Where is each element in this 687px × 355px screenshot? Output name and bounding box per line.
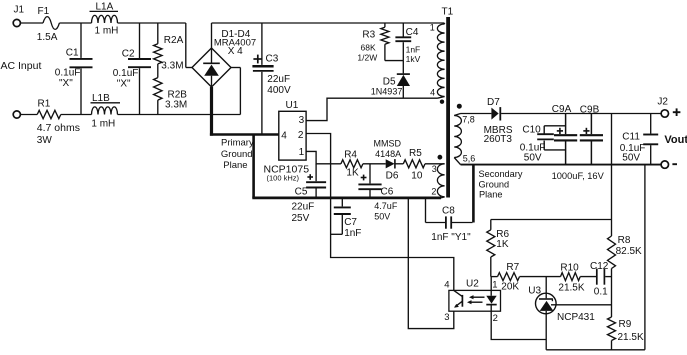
wire R6 to R7 node	[491, 276, 498, 278]
svg-text:D7: D7	[487, 97, 500, 108]
svg-text:21.5K: 21.5K	[558, 282, 584, 293]
svg-text:X 4: X 4	[228, 46, 243, 57]
svg-text:0.1uF: 0.1uF	[113, 68, 139, 79]
optocoupler U2 phototransistor	[461, 295, 463, 307]
svg-text:R1: R1	[38, 99, 51, 110]
svg-text:3: 3	[432, 164, 437, 174]
svg-text:R9: R9	[619, 319, 632, 330]
svg-text:2: 2	[431, 186, 436, 196]
svg-text:1K: 1K	[346, 167, 359, 178]
wire R4 to D6 (node C6)	[363, 163, 386, 165]
capacitor C2	[139, 23, 141, 58]
svg-text:Ground: Ground	[221, 149, 253, 160]
svg-text:5,6: 5,6	[463, 154, 476, 164]
wire L1B to bridge neutral	[118, 114, 241, 116]
svg-text:50V: 50V	[524, 152, 542, 163]
svg-text:50V: 50V	[374, 212, 390, 222]
capacitor C4	[402, 23, 404, 37]
wire C8 to secondary ground (thick)	[472, 165, 475, 223]
svg-text:1.5A: 1.5A	[37, 32, 58, 43]
svg-text:4: 4	[281, 130, 287, 141]
svg-text:20K: 20K	[501, 282, 519, 293]
resistor R2A	[157, 23, 159, 44]
wire bridge - to primary ground bus	[210, 87, 213, 136]
svg-text:Vout: Vout	[664, 134, 687, 146]
plus sign C3	[253, 58, 262, 60]
capacitor C9A	[565, 114, 567, 135]
fuse F1	[43, 17, 59, 30]
svg-text:D6: D6	[386, 170, 399, 181]
wire rectified + rail	[212, 22, 445, 24]
diode D5	[402, 61, 404, 74]
svg-text:U2: U2	[466, 278, 479, 289]
bridge rectifier D1-D4 diamond	[192, 48, 231, 87]
svg-text:1N4937: 1N4937	[371, 87, 403, 97]
capacitor C3	[261, 23, 263, 65]
svg-text:"X": "X"	[117, 79, 131, 90]
svg-text:C10: C10	[522, 124, 541, 135]
svg-text:NCP431: NCP431	[557, 312, 595, 323]
svg-text:C4: C4	[406, 27, 419, 38]
svg-text:3: 3	[299, 115, 305, 126]
svg-text:C8: C8	[442, 206, 455, 217]
transformer T1 aux winding	[437, 164, 444, 197]
svg-text:F1: F1	[38, 6, 50, 17]
inductor L1B	[92, 107, 118, 115]
svg-text:C2: C2	[122, 49, 135, 60]
resistor R3	[384, 23, 386, 27]
svg-text:21.5K: 21.5K	[618, 332, 644, 343]
transformer T1 secondary winding	[454, 114, 460, 116]
svg-text:2: 2	[298, 130, 304, 141]
resistor R4	[341, 160, 363, 168]
capacitor C8	[425, 198, 427, 223]
wire U1 pin2 feedback down	[306, 134, 454, 291]
resistor R9	[608, 317, 616, 341]
wire R7 to R10	[520, 276, 561, 278]
svg-text:3.3M: 3.3M	[161, 61, 183, 72]
terminal J2 minus	[661, 161, 668, 168]
secondary ground rail (thick)	[461, 164, 662, 166]
bridge inner diode symbol	[211, 48, 213, 63]
svg-text:1 mH: 1 mH	[95, 25, 119, 36]
optocoupler U2 light arrows	[472, 296, 485, 298]
svg-text:R8: R8	[618, 235, 631, 246]
capacitor C9B	[590, 114, 592, 135]
svg-text:4.7 ohms: 4.7 ohms	[37, 122, 80, 134]
capacitor C6	[369, 164, 371, 184]
plus sign C6	[361, 177, 367, 179]
svg-text:C7: C7	[344, 217, 357, 228]
svg-text:1nF: 1nF	[344, 228, 361, 239]
wire U3 ref to divider midpoint	[551, 304, 612, 306]
svg-text:C9A: C9A	[552, 104, 572, 115]
svg-text:1nF "Y1": 1nF "Y1"	[431, 232, 471, 243]
minus sign J2	[672, 163, 677, 165]
wire U2 pin3 to primary ground	[408, 198, 454, 329]
svg-text:U1: U1	[286, 100, 299, 111]
wire R2A-R2B junction	[157, 64, 159, 78]
diode D7	[491, 108, 498, 120]
svg-text:3.3M: 3.3M	[165, 100, 187, 111]
plus sign C9A	[557, 130, 563, 132]
resistor R2B	[154, 78, 162, 101]
wire U2 pin2 to U3 anode	[491, 311, 546, 339]
svg-text:Primary: Primary	[221, 138, 254, 149]
wire U3 anode bottom return	[546, 349, 645, 351]
svg-text:C5: C5	[295, 186, 308, 197]
resistor R7	[498, 273, 520, 281]
capacitor C5	[315, 164, 317, 181]
capacitor C11	[650, 114, 652, 134]
svg-text:Ground: Ground	[479, 180, 510, 190]
svg-text:68K: 68K	[361, 42, 376, 52]
wire AC hot down to bridge	[185, 23, 187, 68]
svg-text:C1: C1	[66, 48, 79, 59]
svg-text:1: 1	[299, 147, 305, 158]
svg-text:1: 1	[492, 279, 497, 290]
wire J1 to F1	[20, 22, 43, 24]
wire T1 7,8 to D7	[461, 113, 492, 115]
svg-text:0.1: 0.1	[594, 287, 608, 298]
wire bridge + output up to rail	[211, 23, 213, 48]
wire primary-gnd bus down link (thick)	[252, 135, 255, 198]
svg-text:1kV: 1kV	[406, 54, 421, 64]
wire L1A to line end (node C2/R2A)	[118, 22, 186, 24]
transformer T1 core	[446, 17, 450, 198]
terminal J1 line (AC hot)	[13, 19, 20, 26]
svg-text:(100 kHz): (100 kHz)	[267, 173, 300, 182]
svg-text:3: 3	[444, 312, 449, 323]
wire U2 pin1 up to R6/R7 node	[490, 277, 492, 291]
optocoupler U2 box	[449, 290, 501, 311]
svg-text:C12: C12	[590, 261, 609, 272]
svg-text:4: 4	[430, 87, 435, 97]
capacitor C7	[341, 198, 343, 207]
capacitor C1	[80, 23, 82, 58]
svg-text:R3: R3	[362, 29, 375, 40]
phasing dot primary	[440, 100, 444, 104]
svg-text:Plane: Plane	[479, 190, 503, 200]
svg-text:C6: C6	[381, 186, 394, 197]
capacitor C10	[537, 133, 554, 135]
wire F1 to L1A (node C1)	[59, 22, 91, 24]
svg-text:82.5K: 82.5K	[616, 246, 642, 257]
svg-text:J2: J2	[657, 96, 668, 107]
phasing dot aux	[438, 155, 443, 160]
diode D6	[386, 159, 395, 168]
transistor U3 NCP431 shunt regulator	[536, 293, 557, 314]
transformer T1 primary winding	[443, 23, 445, 24]
svg-text:10: 10	[411, 170, 423, 181]
wire + output rail	[501, 113, 661, 115]
wire Vout+ down to divider	[611, 114, 613, 237]
svg-text:4: 4	[444, 279, 449, 290]
svg-text:22uF: 22uF	[292, 202, 315, 213]
optocoupler U2 LED	[490, 290, 492, 295]
svg-text:4148A: 4148A	[375, 149, 401, 159]
terminal J2 plus	[661, 110, 668, 117]
svg-text:7,8: 7,8	[462, 115, 475, 125]
plus sign C5	[307, 176, 313, 178]
inductor L1A	[92, 15, 118, 23]
wire R6 top junction	[491, 219, 612, 221]
svg-text:C11: C11	[622, 131, 640, 142]
svg-text:C9B: C9B	[580, 105, 600, 116]
primary ground rail (thick)	[252, 197, 441, 200]
svg-text:1/2W: 1/2W	[357, 52, 377, 62]
resistor R6	[490, 220, 492, 230]
svg-text:50V: 50V	[622, 152, 640, 163]
wire U3 cathode up to node	[545, 277, 547, 294]
wire U1 pin1 to VCC node	[306, 151, 341, 163]
svg-text:1K: 1K	[496, 239, 509, 250]
svg-text:1000uF, 16V: 1000uF, 16V	[552, 171, 605, 181]
svg-text:T1: T1	[442, 6, 454, 17]
svg-text:4.7uF: 4.7uF	[374, 201, 398, 211]
label L1A underline	[90, 10, 119, 12]
svg-text:R10: R10	[560, 263, 579, 274]
plus sign J2	[673, 111, 681, 113]
svg-text:R2A: R2A	[164, 35, 184, 46]
plus sign C9B	[583, 130, 589, 132]
resistor R10	[561, 273, 581, 281]
svg-text:R4: R4	[344, 150, 357, 161]
svg-text:3W: 3W	[37, 135, 53, 146]
svg-text:MMSD: MMSD	[374, 139, 402, 149]
svg-text:J1: J1	[14, 5, 25, 16]
svg-text:Secondary: Secondary	[479, 169, 523, 179]
svg-text:2: 2	[493, 313, 498, 324]
wire R5 to T1 pin3	[425, 163, 445, 165]
svg-text:U3: U3	[528, 286, 541, 297]
terminal J1 line (AC neutral)	[13, 111, 20, 118]
svg-text:260T3: 260T3	[484, 134, 513, 145]
capacitor C12	[580, 276, 596, 278]
op-amp U1 NCP1075 box	[279, 111, 306, 160]
label L1B underline	[91, 102, 121, 104]
svg-text:1 mH: 1 mH	[91, 118, 115, 129]
svg-text:Plane: Plane	[223, 160, 247, 171]
phasing dot secondary	[457, 104, 462, 109]
svg-text:C3: C3	[266, 54, 279, 65]
wire R3-C4 junction	[385, 60, 403, 62]
resistor R8	[608, 236, 616, 269]
svg-text:"X": "X"	[59, 78, 73, 89]
resistor R5	[403, 160, 425, 168]
svg-text:22uF: 22uF	[267, 74, 290, 85]
svg-text:25V: 25V	[292, 213, 310, 224]
svg-text:R7: R7	[506, 262, 519, 273]
svg-text:1nF: 1nF	[406, 44, 421, 54]
wire R1 to L1B	[61, 114, 92, 116]
wire U1 pin3 to transformer pin4 line	[306, 98, 437, 120]
svg-text:R5: R5	[409, 148, 422, 159]
svg-text:AC Input: AC Input	[1, 60, 42, 72]
primary ground bus (thick)	[210, 133, 279, 136]
svg-text:1: 1	[430, 22, 435, 32]
resistor R1	[20, 114, 37, 116]
svg-text:400V: 400V	[267, 85, 291, 96]
